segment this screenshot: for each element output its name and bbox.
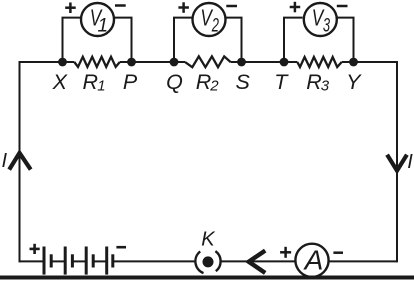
node T — [280, 58, 289, 67]
svg-text:K: K — [201, 229, 216, 251]
wire battery to key — [113, 260, 195, 262]
svg-text:R: R — [196, 70, 212, 94]
wire key to ammeter — [221, 260, 295, 262]
svg-text:3: 3 — [321, 78, 330, 95]
wire P to Q — [120, 61, 185, 63]
voltmeter branch wires V3 — [284, 18, 303, 62]
resistor R3 — [297, 57, 341, 67]
wire top-left segment — [20, 61, 75, 63]
svg-text:3: 3 — [323, 15, 330, 36]
node X — [58, 58, 67, 67]
minus sign V2 — [226, 5, 237, 8]
plus sign V1 — [65, 3, 76, 14]
svg-text:X: X — [52, 70, 69, 94]
svg-text:A: A — [303, 245, 324, 276]
svg-text:T: T — [274, 70, 289, 94]
svg-text:Q: Q — [166, 70, 183, 94]
ammeter A — [295, 244, 328, 277]
voltmeter V3 circle — [304, 3, 337, 36]
wire ammeter to bottom-right corner — [330, 260, 398, 262]
battery cell 1 — [44, 247, 65, 275]
svg-text:2: 2 — [211, 15, 219, 36]
plus sign battery — [30, 244, 40, 254]
voltmeter branch wires V1 — [63, 18, 81, 62]
svg-text:R: R — [306, 70, 322, 94]
voltmeter V2 circle — [193, 3, 226, 36]
minus sign ammeter — [333, 251, 343, 254]
voltmeter V1 circle — [81, 3, 114, 36]
svg-text:2: 2 — [209, 78, 219, 95]
svg-text:I: I — [407, 151, 413, 173]
voltmeter branch wires V2 — [174, 18, 192, 62]
svg-text:R: R — [83, 70, 99, 94]
minus sign battery — [116, 246, 126, 249]
plus sign V3 — [290, 2, 301, 13]
wire S to T — [231, 61, 298, 63]
battery cell 2 — [65, 247, 86, 275]
svg-text:Y: Y — [346, 70, 362, 94]
svg-text:I: I — [2, 150, 8, 172]
resistor R2 — [185, 56, 231, 67]
node S — [237, 58, 246, 67]
current arrow left (bottom wire) — [249, 251, 266, 273]
battery cell 3 — [86, 247, 107, 275]
svg-text:1: 1 — [98, 15, 109, 36]
plus sign ammeter — [280, 247, 291, 258]
minus sign V1 — [115, 4, 126, 7]
wire bottom-left to battery — [20, 260, 45, 262]
battery cell 4 — [107, 247, 113, 275]
minus sign V3 — [337, 5, 348, 8]
current arrow up (left wire) — [9, 153, 31, 170]
node Y — [349, 58, 358, 67]
wire left vertical — [19, 61, 21, 262]
wire Y to top-right corner — [342, 61, 397, 63]
svg-text:P: P — [123, 70, 138, 94]
current arrow down (right wire) — [387, 155, 407, 171]
wire right vertical — [396, 61, 398, 262]
node Q — [170, 58, 179, 67]
svg-text:1: 1 — [97, 78, 105, 95]
resistor R1 — [74, 57, 120, 67]
key K symbol — [195, 251, 220, 273]
svg-text:S: S — [236, 70, 251, 94]
plus sign V2 — [178, 2, 189, 13]
node P — [127, 58, 136, 67]
